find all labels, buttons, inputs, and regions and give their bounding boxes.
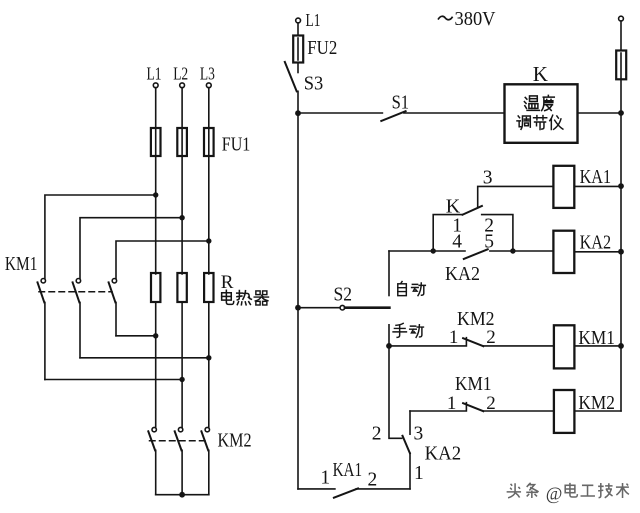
svg-text:380V: 380V <box>455 8 497 30</box>
wire KA2-branch right <box>490 250 554 252</box>
switch S3 blade <box>285 62 297 91</box>
wire bottom KA1 row right <box>356 488 410 490</box>
terminal L1 <box>153 83 158 88</box>
svg-text:3: 3 <box>414 424 424 445</box>
svg-text:2: 2 <box>372 424 382 445</box>
relay coil KA2 <box>553 231 574 273</box>
svg-text:K: K <box>533 62 548 86</box>
wire left control rail <box>297 91 299 489</box>
svg-text:2: 2 <box>368 470 378 491</box>
svg-text:1: 1 <box>414 463 424 484</box>
node junction manual row <box>386 343 392 349</box>
wire KM2-row right <box>483 410 554 412</box>
relay coil KM2 <box>554 390 575 433</box>
label 温度 (line 1) <box>524 95 554 110</box>
wire S1 right to controller <box>404 112 505 114</box>
wire KA2 changeover terminal 3 stub <box>409 411 411 434</box>
relay coil KM1 <box>554 325 575 368</box>
resistor R phase C (heater) <box>204 273 213 302</box>
contactor KM1 pole 3 <box>109 279 117 336</box>
wire KA2-branch left <box>389 250 465 252</box>
label 电热器 (electric heater) <box>222 290 269 305</box>
svg-text:2: 2 <box>486 327 496 348</box>
temperature controller box <box>505 84 578 143</box>
wire branch 3 to KA1 <box>478 186 554 207</box>
wire branch row 2 (L2 to KM1 pole 2) <box>80 218 182 279</box>
contact K blade (to KA1) <box>463 206 482 215</box>
terminal L2 <box>180 83 185 88</box>
svg-text:S1: S1 <box>392 92 410 114</box>
relay coil KA1 <box>553 166 574 208</box>
svg-text:L1: L1 <box>306 10 321 30</box>
wire branch row 3 (L3 to KM1 pole 3) <box>116 241 209 278</box>
svg-text:KM2: KM2 <box>218 429 252 451</box>
fuse FU1 phase A <box>151 128 161 156</box>
node junction L3-row3 <box>206 238 211 243</box>
wire FU2 to S3 <box>297 63 299 73</box>
label ~380V <box>439 16 453 19</box>
switch S1 blade <box>381 111 405 121</box>
contactor KM1 pole 2 <box>73 279 81 358</box>
node junction R2-crossover <box>179 377 184 382</box>
contact KA2 changeover blade <box>403 436 410 453</box>
wire KA1 to rail <box>574 185 621 187</box>
node junction R3-crossover <box>206 355 211 360</box>
node junction rail-controller <box>618 110 624 116</box>
node junction rail-KM1 <box>618 343 624 349</box>
contactor KM2 pole 1 <box>148 427 156 494</box>
node junction R1-crossover <box>153 333 158 338</box>
wire bottom KA1 row left <box>298 488 335 490</box>
wire KM2-row left <box>410 403 466 411</box>
contactor KM1 pole 1 <box>38 279 46 380</box>
wire KM1 to rail <box>574 345 621 347</box>
wire crossover KM1 pole1 to R2 bottom <box>45 379 182 381</box>
svg-text:R: R <box>221 272 234 293</box>
wire branch row 1 (L1 to KM1 pole 1) <box>45 195 156 278</box>
svg-text:FU1: FU1 <box>222 134 251 156</box>
wire bottom tie <box>156 494 209 496</box>
node junction K terminal 4 <box>431 248 436 253</box>
wire right rail upper <box>620 21 622 51</box>
svg-text:S2: S2 <box>334 284 353 306</box>
wire KA2 common down <box>409 453 411 489</box>
wire auto branch vertical <box>388 251 390 296</box>
wire crossover KM1 pole2 to R3 bottom <box>80 357 209 359</box>
wire controller to right rail <box>578 112 622 114</box>
switch S2 blade <box>345 306 390 309</box>
fuse FU1 phase B <box>177 128 187 156</box>
svg-text:KA2: KA2 <box>580 231 612 253</box>
wire S2 left <box>298 307 340 309</box>
resistor R phase A (heater) <box>151 273 160 302</box>
wire KM1-row left <box>389 338 466 346</box>
contactor KM2 pole 3 <box>201 427 209 494</box>
svg-text:4: 4 <box>452 232 462 253</box>
wire KM2 to rail <box>574 410 621 412</box>
svg-text:1: 1 <box>320 467 330 488</box>
node junction rail-KA1 <box>618 183 624 189</box>
contact KA1 blade <box>334 488 358 497</box>
node junction S2 branch <box>295 305 301 311</box>
wire K contact terminal 1 <box>433 215 462 251</box>
svg-text:L3: L3 <box>200 64 215 84</box>
KM2 gang dashed link <box>150 440 206 442</box>
contact KM1 NC blade <box>463 403 483 411</box>
svg-text:KA1: KA1 <box>333 459 363 481</box>
wire R2 column below <box>181 302 183 427</box>
wire crossover KM1 pole3 to R1 bottom <box>116 335 156 337</box>
fuse FU2 <box>293 36 303 63</box>
wire manual branch vertical <box>389 325 402 439</box>
label 手动 (manual) <box>393 323 423 337</box>
terminal L1 (control) <box>296 18 301 23</box>
wire KA2 to rail <box>574 251 621 253</box>
wire L1 column <box>155 88 157 274</box>
label 调节仪 (line 2) <box>517 115 563 129</box>
svg-text:KM1: KM1 <box>455 373 492 395</box>
terminal right rail top <box>619 16 624 21</box>
wire L3 column <box>208 88 210 274</box>
svg-text:L2: L2 <box>173 64 188 84</box>
resistor R phase B (heater) <box>177 273 186 302</box>
wire right rail <box>620 53 622 411</box>
node junction rail-KA2 <box>618 249 624 255</box>
wire KM1-row right <box>483 345 554 347</box>
svg-text:L1: L1 <box>147 64 162 84</box>
svg-text:1: 1 <box>449 327 459 348</box>
wire R3 column below <box>208 302 210 427</box>
label 自动 (auto) <box>398 281 426 295</box>
node junction L2-row2 <box>179 215 184 220</box>
wire S1 left <box>298 112 382 114</box>
contact KA2 blade <box>464 249 488 259</box>
node junction L1-row1 <box>153 192 158 197</box>
svg-text:KA2: KA2 <box>445 263 480 285</box>
svg-text:KA2: KA2 <box>425 442 462 464</box>
svg-text:S3: S3 <box>304 73 324 95</box>
KM1 gang dashed link <box>39 291 112 293</box>
watermark 头条@电工技术 <box>506 482 629 503</box>
svg-text:KM1: KM1 <box>5 253 38 275</box>
wire K contact terminal 2 <box>482 215 513 251</box>
node junction K terminal 5 <box>510 248 515 253</box>
node junction S1 branch <box>295 110 301 116</box>
terminal L3 <box>206 83 211 88</box>
wire L2 column <box>181 88 183 274</box>
wire R1 column below <box>155 302 157 427</box>
svg-text:KA1: KA1 <box>580 166 612 188</box>
contactor KM2 pole 2 <box>175 427 183 494</box>
wire terminal to FU2 <box>297 23 299 36</box>
fuse (right rail) <box>616 51 626 80</box>
switch S2 pivot <box>340 305 345 310</box>
fuse FU1 phase C <box>204 128 214 156</box>
node junction bottom tie <box>179 492 185 498</box>
svg-text:3: 3 <box>483 167 493 188</box>
svg-text:FU2: FU2 <box>307 37 337 59</box>
svg-text:@: @ <box>546 484 563 504</box>
contact KM2 NC blade <box>463 338 483 346</box>
